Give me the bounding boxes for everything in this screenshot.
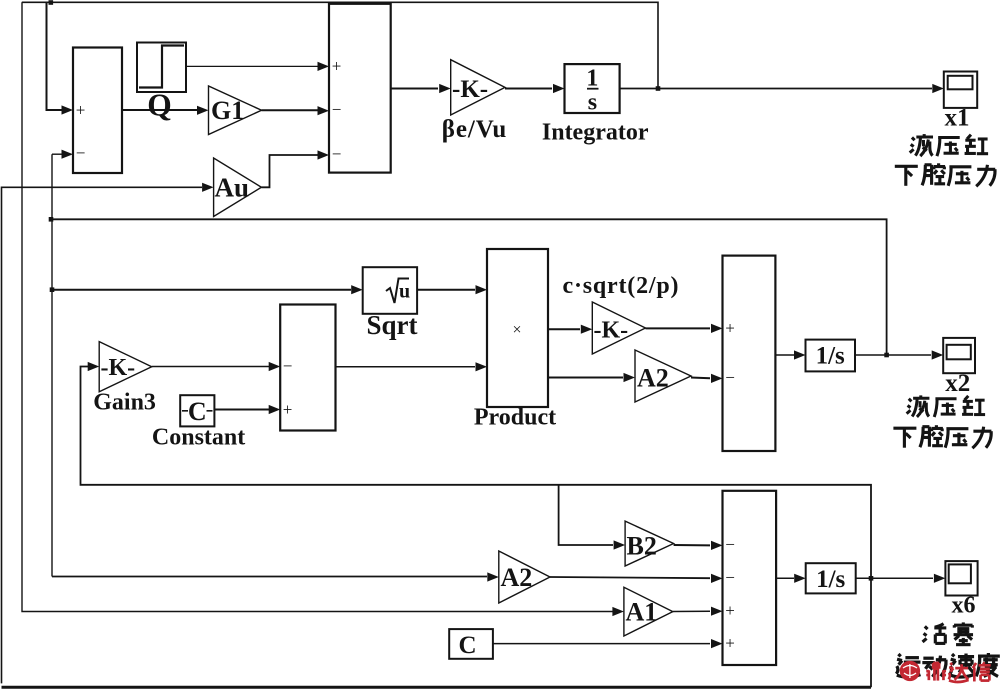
arrowhead into Sum2 minus1 [318, 106, 330, 115]
svg-text:−: − [332, 100, 342, 119]
constant block C2 [449, 629, 493, 659]
svg-text:+: + [725, 601, 735, 620]
arrowhead into Sum5 minus2 [711, 574, 723, 583]
svg-text:βe/Vu: βe/Vu [442, 116, 507, 143]
svg-text:−: − [725, 368, 735, 387]
wire 1s mid to x2 scope [855, 354, 931, 356]
arrowhead into Kc gain [581, 325, 593, 334]
svg-text:B2: B2 [627, 532, 657, 561]
arrowhead into Sum4 minus [711, 374, 723, 383]
wire Sqrt to Product [417, 289, 475, 291]
svg-text:x1: x1 [945, 105, 970, 132]
svg-text:u: u [399, 281, 410, 303]
wire B2 to Sum5 [674, 544, 710, 546]
wire x2 to sqrt [52, 289, 351, 291]
svg-text:x2: x2 [945, 370, 970, 397]
wire setpoint into Sum1 plus [47, 2, 63, 110]
wire Integrator out to x1 scope [620, 88, 932, 90]
product block [487, 249, 548, 407]
gain Kc [592, 302, 645, 354]
sqrt symbol [386, 279, 409, 304]
scope x1 screen [948, 76, 973, 90]
wire Product to A2 mid [548, 377, 623, 379]
gain Au [214, 158, 262, 217]
wire right x6 riser [81, 367, 872, 688]
svg-text:A2: A2 [501, 563, 533, 592]
wire x1 feedback top [22, 2, 658, 88]
wire A2 bottom to Sum5 [550, 577, 710, 578]
svg-text:A1: A1 [626, 598, 658, 627]
arrowhead into Sum4 plus [711, 324, 723, 333]
sum block Sum3 [280, 305, 335, 431]
wire left x1 drop to A1 [22, 2, 613, 611]
label x6 chinese line1 [923, 624, 947, 644]
label x2 chinese line2 [893, 428, 916, 448]
svg-text:Au: Au [215, 173, 250, 203]
svg-text:x6: x6 [952, 593, 976, 619]
arrowhead into Sum5 plus1 [711, 607, 723, 616]
label x1 chinese line1 [910, 134, 933, 156]
scope x2 outer [943, 338, 975, 373]
sqrt block [363, 267, 417, 314]
C1 ticks [182, 410, 213, 412]
svg-text:-K-: -K- [594, 318, 629, 344]
svg-text:Product: Product [474, 405, 556, 431]
gain B2 [625, 521, 674, 566]
gain A2 mid [635, 350, 691, 402]
arrowhead into Sum3 plus [269, 405, 281, 414]
arrowhead into Sum5 plus2 [711, 639, 723, 648]
arrowhead into Sum3 minus [269, 362, 281, 371]
svg-text:−: − [725, 568, 735, 587]
label x6 chinese line2 [896, 654, 920, 677]
wire Constant to Sum3 [214, 409, 269, 411]
svg-text:s: s [588, 90, 597, 116]
wire Sum4 to integrator 1s [775, 354, 794, 356]
svg-text:Constant: Constant [152, 425, 245, 451]
wire A1 to Sum5 [673, 610, 710, 612]
integrator 1s mid [806, 340, 856, 372]
svg-text:1: 1 [586, 66, 598, 92]
scope x6 screen [949, 564, 971, 583]
wire x6 to Au [2, 187, 203, 683]
scope x1 outer [944, 72, 977, 108]
sum block Sum4 [723, 256, 776, 451]
wire 1s bottom to x6 scope [856, 577, 933, 579]
node top junction [49, 0, 54, 5]
scope x2 screen [947, 345, 971, 360]
wire Gain3 to Sum3 [152, 366, 269, 368]
svg-text:1/s: 1/s [816, 566, 845, 593]
arrowhead into A2 bottom [487, 572, 499, 581]
svg-text:×: × [512, 322, 521, 339]
constant block C1 [180, 395, 214, 426]
arrowhead into Product in1 [476, 285, 488, 294]
arrowhead into B2 [614, 540, 626, 549]
arrowhead into A2 mid [624, 373, 636, 382]
svg-text:c·sqrt(2/p): c·sqrt(2/p) [563, 273, 680, 299]
wire Kc gain to Sum4 [646, 327, 711, 329]
integrator 1s bottom [806, 563, 856, 593]
label x2 chinese line1 [907, 395, 930, 417]
arrowhead into x1 scope [932, 84, 944, 93]
svg-text:Gain3: Gain3 [93, 390, 156, 416]
sum block Sum1 [73, 48, 122, 174]
sum block Sum5 [723, 491, 777, 665]
svg-text:−: − [725, 535, 735, 554]
step symbol [139, 46, 184, 88]
svg-text:+: + [283, 400, 293, 419]
wire Sum3 to Product [336, 366, 476, 368]
node x2 branch upper [49, 217, 54, 222]
arrowhead into G1 [197, 106, 209, 115]
wire B2 feed [559, 485, 613, 545]
gain G1 [209, 86, 262, 135]
arrowhead into Gain3 [88, 362, 100, 371]
svg-text:G1: G1 [211, 96, 244, 125]
svg-text:−: − [76, 144, 86, 163]
svg-text:Q: Q [147, 88, 172, 123]
node x2 branch sqrt [50, 287, 55, 292]
arrowhead into Au [202, 183, 214, 192]
svg-text:−: − [283, 356, 293, 375]
arrowhead into Integrator [553, 84, 565, 93]
wire Sum5 to integrator 1s bottom [776, 577, 794, 579]
wire bottom x6 feedback [2, 686, 872, 689]
wire Product to Kc gain [548, 328, 580, 330]
wire Sum1 minus stub [52, 153, 63, 155]
arrowhead into Product in2 [476, 362, 488, 371]
node x6 output junction [869, 576, 874, 581]
svg-text:Integrator: Integrator [542, 120, 649, 146]
arrowhead into 1s bottom [794, 574, 806, 583]
wire BeVu to Integrator [505, 88, 552, 90]
node integrator out junction [656, 86, 661, 91]
label x1 chinese line2 [895, 166, 918, 186]
sum block Sum2 [329, 4, 391, 173]
svg-text:+: + [76, 100, 86, 119]
integrator block [565, 64, 620, 113]
gain Gain3 [99, 342, 152, 392]
wire x2 into Sum1 minus [51, 154, 53, 576]
wire G1 to Sum2 [262, 109, 319, 111]
svg-text:−: − [332, 145, 342, 164]
svg-text:+: + [725, 634, 735, 653]
gain BeVu [451, 60, 505, 115]
arrowhead into Sqrt [351, 285, 363, 294]
arrowhead into x6 scope [934, 574, 946, 583]
wire A2 mid to Sum4 [691, 377, 710, 380]
wire Au to Sum2 [261, 155, 318, 187]
svg-text:1/s: 1/s [816, 343, 845, 370]
wire Sum1 out to G1 [122, 109, 197, 111]
watermark text dingdaxin [926, 663, 946, 681]
svg-text:+: + [332, 57, 342, 76]
svg-text:C: C [188, 397, 207, 426]
node x2 output junction [884, 353, 889, 358]
svg-text:A2: A2 [637, 364, 669, 393]
arrowhead into BeVu gain [439, 84, 451, 93]
arrowhead into Sum2 minus2 [318, 150, 330, 159]
svg-text:C: C [458, 632, 476, 659]
wire Sum2 out [391, 88, 438, 90]
svg-text:-K-: -K- [101, 355, 136, 381]
wire Step to Sum2 [186, 65, 318, 67]
arrowhead into Sum1 minus [62, 150, 74, 159]
svg-text:-K-: -K- [452, 76, 488, 103]
arrowhead into Sum5 minus1 [711, 541, 723, 550]
watermark logo [900, 661, 920, 681]
arrowhead into A1 [612, 607, 624, 616]
wire x2 feedback horizontal [51, 219, 887, 355]
wire x2 to A2 bottom [52, 576, 487, 578]
step source Q [137, 43, 186, 93]
scope x6 outer [945, 561, 977, 595]
arrowhead into 1s mid [794, 350, 806, 359]
arrowhead into x2 scope [932, 350, 944, 359]
svg-text:+: + [725, 319, 735, 338]
svg-text:Sqrt: Sqrt [366, 310, 417, 340]
gain A1 [624, 587, 673, 636]
gain A2 bottom [499, 551, 550, 603]
arrowhead into Sum1 plus [62, 105, 74, 114]
wire C2 to Sum5 [493, 643, 710, 645]
arrowhead into Sum2 plus [318, 62, 330, 71]
integrator bar [587, 88, 599, 90]
